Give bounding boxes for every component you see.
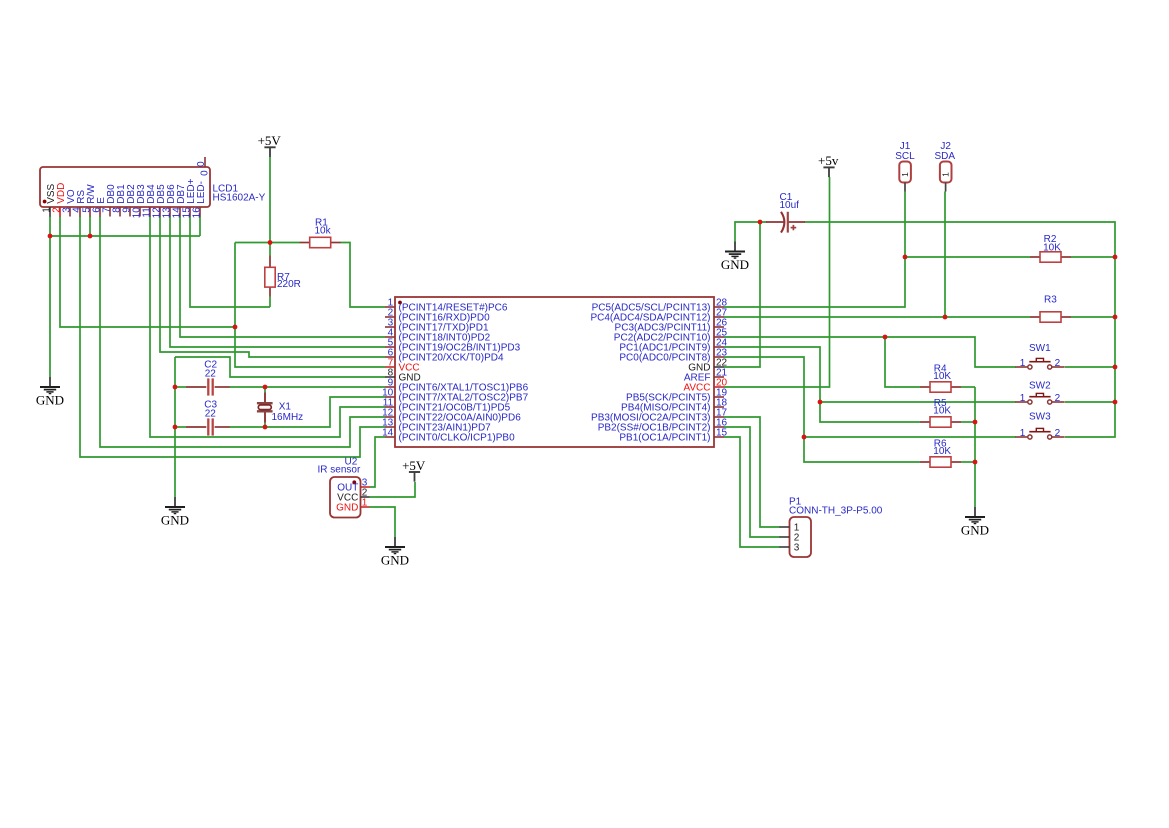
junction node (1115,257)	[1113, 255, 1118, 260]
wire: X1 top stub	[264, 387, 266, 393]
ground (C1)	[721, 242, 749, 272]
wire: C1 negative to ground	[735, 222, 767, 242]
resistor R4 10K	[920, 364, 961, 393]
LCD1 pin 8 DB1	[111, 184, 127, 217]
wire: pin25 branch down to R4	[885, 337, 920, 387]
wire: LCD RS pin4 to MCU pin13 PD7	[80, 216, 385, 457]
svg-text:0: 0	[196, 161, 207, 167]
svg-text:GND: GND	[961, 522, 989, 537]
U2 pin 3 OUT	[337, 478, 370, 494]
LCD1 pin 10 DB3	[131, 184, 147, 218]
svg-text:+5v: +5v	[818, 153, 839, 168]
svg-text:10K: 10K	[1043, 242, 1061, 253]
connector J2 SDA	[935, 141, 956, 192]
svg-text:+5V: +5V	[258, 133, 282, 148]
LCD1 pin 1 VSS	[41, 183, 57, 216]
wire: C2 left lead stub	[175, 386, 186, 388]
svg-text:14: 14	[382, 428, 394, 439]
svg-text:GND: GND	[36, 392, 64, 407]
wire: R3 right to +5V rail	[1071, 316, 1115, 318]
wire: U2 VCC to +5V	[370, 482, 416, 497]
svg-text:+5V: +5V	[402, 458, 426, 473]
wire: MCU pin20 AVCC to +5v	[724, 177, 830, 387]
MCU pin 3 (PCINT17/TXD)PD1	[385, 318, 489, 334]
LCD1 pin 12 DB5	[151, 184, 167, 218]
MCU pin 23 PC0(ADC0/PCINT8)	[619, 348, 727, 364]
wire: U2 OUT to MCU pin14 ICP1	[370, 437, 385, 487]
wire: C2 right to X1 top and MCU XTAL1 pin9	[229, 386, 385, 388]
wire: LCD DB6 pin13 to MCU pin5 PD3	[170, 216, 385, 347]
MCU pin1 marker dot	[398, 301, 402, 305]
wire: MCU pin27 SDA to R3	[724, 316, 1030, 318]
svg-text:15: 15	[716, 428, 728, 439]
svg-text:10K: 10K	[933, 406, 951, 417]
svg-text:22: 22	[205, 368, 217, 379]
resistor R7 220R	[265, 256, 301, 297]
wire: LCD LED- pin16 to ground bus	[199, 216, 201, 236]
MCU pin 12 (PCINT22/OC0A/AIN0)PD6	[382, 408, 521, 424]
wire: MCU pin17 PB3 to P1 pin1	[724, 417, 780, 527]
LCD1 pin 11 DB4	[141, 184, 157, 218]
MCU pin 26 PC3(ADC3/PCINT11)	[615, 318, 728, 334]
svg-text:SW1: SW1	[1029, 343, 1051, 354]
LCD1 pin 13 DB6	[161, 184, 177, 218]
wire: pin24 branch to SW2	[820, 401, 1016, 403]
wire: J2 down to SDA row	[944, 192, 946, 318]
wire: LCD E pin6 to MCU pin12 PD6	[100, 216, 385, 447]
wire: +5V node to R1 left lead	[235, 242, 300, 244]
svg-text:3: 3	[794, 543, 800, 554]
LCD1 pin 15 LED+	[181, 178, 197, 218]
svg-text:1: 1	[1020, 393, 1026, 404]
ground (U2)	[381, 537, 409, 567]
wire: ground bus under LCD (VSS/RW/LED-)	[50, 235, 200, 237]
wire: MCU pin15 PB1 to P1 pin3	[724, 437, 780, 547]
svg-text:GND: GND	[721, 257, 749, 272]
wire: R2 row left	[905, 256, 1030, 258]
+5v power symbol (AVCC)	[818, 153, 839, 177]
junction node (905,257)	[903, 255, 908, 260]
svg-text:HS1602A-Y: HS1602A-Y	[213, 192, 266, 203]
junction node (175,387)	[173, 385, 178, 390]
wire: R6 right to GND vertical	[961, 461, 975, 463]
MCU pin 9 (PCINT6/XTAL1/TOSC1)PB6	[385, 378, 529, 394]
wire: LCD DB4 pin11 to MCU pin11 PD5	[150, 216, 385, 437]
wire: SW2 right to +5V rail	[1065, 401, 1115, 403]
MCU pin 6 (PCINT20/XCK/T0)PD4	[385, 348, 504, 364]
svg-text:R3: R3	[1044, 294, 1057, 305]
svg-text:SCL: SCL	[895, 151, 915, 162]
resistor R5 10K	[920, 398, 961, 427]
LCD1 pin 0 (top)	[196, 157, 211, 176]
LCD display connector LCD1 HS1602A-Y	[40, 167, 210, 207]
capacitor C3 22	[186, 399, 230, 435]
crystal X1 16MHz	[257, 393, 303, 423]
svg-text:2: 2	[1055, 393, 1061, 404]
wire: pin23 branch to SW3	[804, 436, 1016, 438]
junction node (265,427)	[263, 425, 268, 430]
svg-text:GND: GND	[336, 502, 358, 513]
wire: C3 left lead stub	[175, 426, 186, 428]
svg-text:SW3: SW3	[1029, 412, 1051, 423]
svg-text:2: 2	[1055, 428, 1061, 439]
wire: LCD VSS pin1 down to ground	[49, 216, 51, 377]
wire: LCD LED+ pin15 down to R7 bottom	[190, 216, 270, 307]
MCU pin 17 PB3(MOSI/OC2A/PCINT3)	[591, 408, 728, 424]
wire: LCD R/W pin5 to ground bus	[89, 216, 91, 236]
LCD1 pin 4 RS	[71, 190, 87, 217]
wire: LCD VDD pin2 to +5V vertical	[60, 216, 235, 327]
pushbutton switch SW2	[1015, 381, 1064, 405]
svg-text:PB1(OC1A/PCINT1): PB1(OC1A/PCINT1)	[619, 433, 710, 444]
MCU pin 16 PB2(SS#/OC1B/PCINT2)	[598, 418, 728, 434]
svg-text:GND: GND	[161, 512, 189, 527]
MCU pin 1 (PCINT14/RESET#)PC6	[385, 298, 508, 314]
LCD1 reference labels	[213, 183, 266, 203]
+5V power symbol (U2)	[402, 458, 426, 482]
wire: LCD DB5 pin12 to MCU pin6 PD4	[160, 216, 385, 357]
junction node (265,387)	[263, 385, 268, 390]
connector P1 CONN-TH_3P-P5.00	[790, 517, 812, 557]
wire: MCU pin23 PC0 to R6	[724, 357, 920, 462]
LCD1 pin 5 R/W	[81, 184, 97, 217]
junction node (885,337)	[883, 335, 888, 340]
wire: R7 bottom lead to corner	[269, 297, 271, 308]
MCU pin 2 (PCINT16/RXD)PD0	[385, 308, 490, 324]
MCU pin 21 AREF	[684, 368, 728, 384]
MCU pin 19 PB5(SCK/PCINT5)	[626, 388, 728, 404]
svg-text:LED-: LED-	[196, 181, 207, 204]
capacitor C1 10uf (polarized)	[766, 192, 805, 232]
svg-text:X1: X1	[279, 401, 292, 412]
junction node (50,236)	[48, 234, 53, 239]
junction node (945,317)	[943, 315, 948, 320]
svg-text:22: 22	[205, 408, 217, 419]
MCU pin 20 AVCC	[683, 378, 727, 394]
ground (R4-R6)	[961, 507, 989, 537]
junction node (820,402)	[818, 400, 823, 405]
svg-text:SDA: SDA	[935, 151, 956, 162]
svg-text:1: 1	[941, 172, 951, 177]
LCD1 pin 16 LED-	[191, 181, 207, 218]
svg-text:1: 1	[900, 172, 910, 177]
MCU pin 4 (PCINT18/INT0)PD2	[385, 328, 491, 344]
MCU pin 13 (PCINT23/AIN1)PD7	[382, 418, 491, 434]
U2 reference labels	[318, 457, 361, 476]
wire: GND rail to MCU pin8	[175, 357, 385, 377]
wire: C3 right to X1 bottom and MCU XTAL2 pin10	[229, 397, 385, 427]
svg-text:(PCINT0/CLKO/ICP1)PB0: (PCINT0/CLKO/ICP1)PB0	[399, 433, 516, 444]
svg-text:220R: 220R	[277, 279, 301, 290]
svg-text:10K: 10K	[933, 446, 951, 457]
junction node (1115,402)	[1113, 400, 1118, 405]
MCU pin 8 GND	[385, 368, 421, 384]
LCD1 pin 7 DB0	[101, 184, 117, 217]
wire: X1 bottom stub	[264, 423, 266, 428]
wire: MCU pin22 GND to C1 node	[724, 222, 760, 367]
resistor R3	[1030, 294, 1071, 322]
P1 pin 2	[780, 533, 800, 544]
resistor R2 10K	[1030, 234, 1071, 262]
MCU pin 14 (PCINT0/CLKO/ICP1)PB0	[382, 428, 515, 444]
LCD1 pin 14 DB7	[171, 184, 187, 218]
MCU pin 10 (PCINT7/XTAL2/TOSC2)PB7	[382, 388, 529, 404]
U2 pin 1 GND	[336, 498, 369, 514]
wire: R1 right lead to MCU RESET pin1	[341, 243, 386, 308]
wire: MCU pin24 PC1 to R5	[724, 347, 920, 422]
svg-text:2: 2	[1055, 358, 1061, 369]
U2 pin 2 VCC	[337, 488, 369, 504]
wire: +5V vertical down to MCU VCC pin7	[235, 243, 385, 368]
wire: R4 right to GND vertical	[961, 386, 975, 388]
svg-text:0: 0	[200, 170, 211, 176]
junction node (1115,317)	[1113, 315, 1118, 320]
MCU pin 15 PB1(OC1A/PCINT1)	[619, 428, 727, 444]
LCD1 pin 6 E	[91, 197, 107, 217]
LCD1 pin1 marker dot	[43, 200, 47, 204]
svg-text:10k: 10k	[315, 225, 332, 236]
junction node (975,462)	[973, 460, 978, 465]
ground (LCD VSS)	[36, 377, 64, 407]
ground (C2/C3)	[161, 497, 189, 527]
wire: MCU pin16 PB2 to P1 pin2	[724, 427, 780, 537]
IR sensor U2	[330, 477, 361, 518]
junction node (270,242.5)	[268, 240, 273, 245]
MCU pin 7 VCC	[385, 358, 420, 374]
LCD1 pin 3 VO	[61, 189, 77, 216]
LCD1 pin 2 VDD	[51, 183, 67, 217]
MCU ATmega328 U1	[395, 297, 714, 447]
junction node (175,427)	[173, 425, 178, 430]
P1 pin 3	[780, 543, 800, 554]
junction node (90,236)	[88, 234, 93, 239]
connector J1 SCL	[895, 141, 915, 192]
wire: MCU pin28 SCL to J1	[724, 192, 905, 308]
MCU pin 27 PC4(ADC4/SDA/PCINT12)	[590, 308, 727, 324]
svg-text:1: 1	[362, 498, 368, 509]
wire: +5V rail from C1 to right edge and SW3	[805, 222, 1116, 437]
junction node (1115,367)	[1113, 365, 1118, 370]
wire: +5V symbol down to R7 top	[269, 157, 271, 256]
svg-text:CONN-TH_3P-P5.00: CONN-TH_3P-P5.00	[789, 505, 883, 516]
svg-text:10K: 10K	[933, 371, 951, 382]
MCU pin 24 PC1(ADC1/PCINT9)	[619, 338, 727, 354]
svg-text:IR sensor: IR sensor	[318, 465, 361, 476]
svg-text:SW2: SW2	[1029, 381, 1051, 392]
P1 pin 1	[780, 523, 800, 534]
wire: LCD DB7 pin14 to MCU pin4 PD2	[180, 216, 385, 337]
+5V power symbol (R1/R7)	[258, 133, 282, 157]
U2 pin1 marker dot	[352, 480, 356, 484]
junction node (760,222)	[758, 220, 763, 225]
MCU pin 18 PB4(MISO/PCINT4)	[621, 398, 728, 414]
capacitor C2 22	[186, 359, 230, 395]
junction node (235,327)	[233, 325, 238, 330]
MCU pin 22 GND	[688, 358, 727, 374]
P1 reference labels	[789, 497, 883, 517]
wire: MCU pin25 PC2 to SW1	[724, 337, 1016, 367]
svg-text:1: 1	[1020, 428, 1026, 439]
wire: R5 right to GND vertical	[961, 421, 975, 423]
wire: U2 GND pin to ground	[370, 507, 396, 537]
MCU pin 5 (PCINT19/OC2B/INT1)PD3	[385, 338, 521, 354]
MCU pin 28 PC5(ADC5/SCL/PCINT13)	[592, 298, 728, 314]
junction node (975,422)	[973, 420, 978, 425]
junction node (804,437)	[802, 435, 807, 440]
wire: GND vertical right side	[974, 387, 976, 507]
svg-text:1: 1	[1020, 358, 1026, 369]
resistor R1 10k	[300, 217, 341, 247]
svg-text:GND: GND	[381, 552, 409, 567]
wire: GND vertical through C2/C3 to ground	[174, 357, 176, 497]
wire: SW1 right to +5V rail	[1065, 366, 1115, 368]
resistor R6 10K	[920, 439, 961, 468]
svg-text:16: 16	[191, 207, 202, 219]
svg-text:16MHz: 16MHz	[272, 412, 304, 423]
svg-text:10uf: 10uf	[780, 200, 800, 211]
LCD1 pin 9 DB2	[121, 184, 137, 217]
pushbutton switch SW1	[1015, 343, 1064, 369]
MCU pin 11 (PCINT21/OC0B/T1)PD5	[383, 398, 511, 414]
MCU pin 25 PC2(ADC2/PCINT10)	[614, 328, 728, 344]
wire: R2 row right to +5V rail	[1071, 256, 1115, 258]
pushbutton switch SW3	[1015, 412, 1064, 439]
